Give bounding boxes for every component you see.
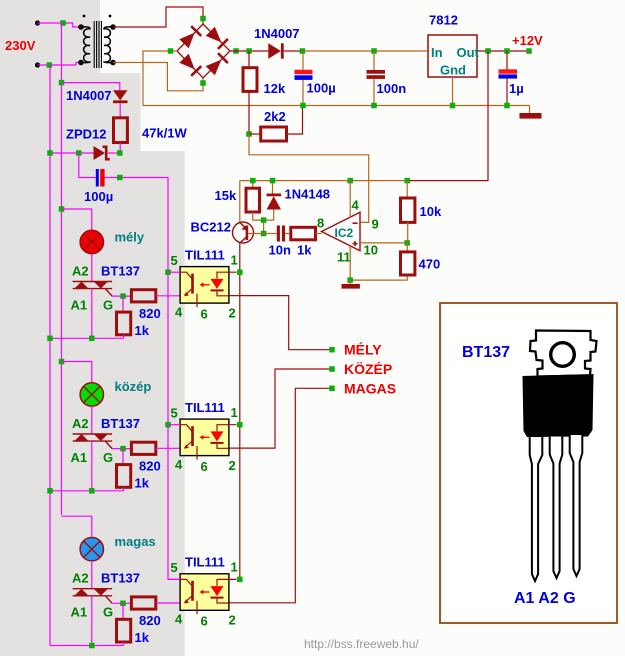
svg-text:http://bss.freeweb.hu/: http://bss.freeweb.hu/ bbox=[304, 637, 419, 651]
svg-text:+12V: +12V bbox=[512, 33, 543, 48]
svg-text:470: 470 bbox=[419, 257, 441, 272]
svg-text:1k: 1k bbox=[135, 476, 150, 491]
svg-text:5: 5 bbox=[171, 253, 178, 268]
svg-text:6: 6 bbox=[201, 614, 208, 629]
svg-text:4: 4 bbox=[175, 305, 183, 320]
svg-text:1k: 1k bbox=[135, 630, 150, 645]
svg-text:G: G bbox=[103, 450, 113, 465]
svg-text:12k: 12k bbox=[264, 81, 286, 96]
svg-text:Out: Out bbox=[457, 45, 480, 60]
svg-text:A2: A2 bbox=[72, 571, 89, 586]
svg-text:4: 4 bbox=[175, 612, 183, 627]
svg-text:In: In bbox=[431, 45, 443, 60]
svg-text:1N4007: 1N4007 bbox=[254, 26, 300, 41]
svg-text:A1: A1 bbox=[71, 450, 88, 465]
svg-text:1: 1 bbox=[231, 560, 238, 575]
svg-text:10: 10 bbox=[364, 243, 378, 258]
svg-text:Gnd: Gnd bbox=[440, 63, 466, 78]
svg-text:100n: 100n bbox=[377, 81, 407, 96]
svg-text:47k/1W: 47k/1W bbox=[142, 126, 188, 141]
svg-text:G: G bbox=[103, 298, 113, 313]
svg-text:G: G bbox=[103, 605, 113, 620]
svg-text:közép: közép bbox=[115, 379, 152, 394]
svg-text:10k: 10k bbox=[420, 204, 442, 219]
svg-text:A2: A2 bbox=[72, 264, 89, 279]
svg-text:BT137: BT137 bbox=[462, 344, 510, 361]
svg-text:A2: A2 bbox=[72, 416, 89, 431]
svg-text:6: 6 bbox=[201, 459, 208, 474]
svg-text:1N4148: 1N4148 bbox=[285, 187, 331, 202]
svg-text:ZPD12: ZPD12 bbox=[66, 127, 106, 142]
svg-text:100µ: 100µ bbox=[84, 189, 113, 204]
svg-text:820: 820 bbox=[139, 459, 161, 474]
svg-text:4: 4 bbox=[175, 457, 183, 472]
svg-text:5: 5 bbox=[171, 560, 178, 575]
svg-text:A1: A1 bbox=[71, 298, 88, 313]
svg-text:820: 820 bbox=[139, 306, 161, 321]
svg-text:2k2: 2k2 bbox=[264, 109, 286, 124]
svg-text:8: 8 bbox=[317, 216, 324, 231]
svg-text:BT137: BT137 bbox=[101, 571, 140, 586]
svg-text:100µ: 100µ bbox=[307, 81, 336, 96]
svg-text:BC212: BC212 bbox=[191, 220, 231, 235]
svg-text:1: 1 bbox=[231, 405, 238, 420]
svg-text:230V: 230V bbox=[5, 38, 36, 53]
svg-text:4: 4 bbox=[352, 198, 360, 213]
svg-text:5: 5 bbox=[171, 405, 178, 420]
svg-text:6: 6 bbox=[201, 307, 208, 322]
svg-text:1k: 1k bbox=[297, 243, 312, 258]
svg-text:1: 1 bbox=[231, 253, 238, 268]
svg-text:BT137: BT137 bbox=[101, 416, 140, 431]
svg-text:BT137: BT137 bbox=[101, 264, 140, 279]
svg-text:TIL111: TIL111 bbox=[185, 248, 225, 263]
svg-text:magas: magas bbox=[115, 534, 156, 549]
svg-text:820: 820 bbox=[139, 613, 161, 628]
svg-text:11: 11 bbox=[337, 250, 351, 265]
svg-text:MAGAS: MAGAS bbox=[344, 381, 396, 397]
svg-text:2: 2 bbox=[229, 458, 236, 473]
svg-text:TIL111: TIL111 bbox=[185, 400, 225, 415]
svg-text:A1: A1 bbox=[71, 605, 88, 620]
svg-text:MÉLY: MÉLY bbox=[344, 342, 382, 358]
svg-text:2: 2 bbox=[229, 613, 236, 628]
svg-text:2: 2 bbox=[229, 306, 236, 321]
svg-text:mély: mély bbox=[115, 230, 145, 245]
svg-text:7812: 7812 bbox=[429, 13, 458, 28]
svg-text:10n: 10n bbox=[269, 243, 291, 258]
svg-text:15k: 15k bbox=[215, 188, 237, 203]
svg-text:TIL111: TIL111 bbox=[185, 555, 225, 570]
svg-text:KÖZÉP: KÖZÉP bbox=[344, 361, 392, 377]
svg-text:IC2: IC2 bbox=[335, 226, 354, 240]
svg-text:A1 A2 G: A1 A2 G bbox=[514, 590, 576, 607]
svg-text:1N4007: 1N4007 bbox=[66, 88, 112, 103]
svg-text:9: 9 bbox=[372, 217, 379, 232]
svg-text:1k: 1k bbox=[135, 323, 150, 338]
svg-text:1µ: 1µ bbox=[509, 81, 524, 96]
